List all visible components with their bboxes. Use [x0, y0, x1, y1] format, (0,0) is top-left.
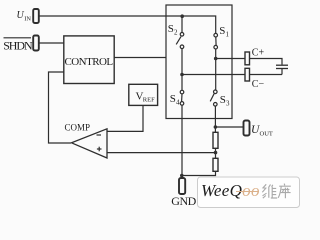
- wire to VOUT terminal: [215, 126, 243, 128]
- svg-text:COMP: COMP: [65, 123, 91, 133]
- svg-text:3: 3: [226, 100, 230, 108]
- node UIN/left-chain junction: [180, 14, 184, 18]
- capacitor C+: [245, 52, 250, 65]
- svg-text:C+: C+: [252, 47, 265, 58]
- terminal UIN: [33, 9, 39, 23]
- label UOUT: [251, 124, 273, 138]
- svg-text:CONTROL: CONTROL: [65, 56, 114, 68]
- wire C- node to capacitor C-: [182, 74, 245, 76]
- label C-: [252, 79, 265, 90]
- svg-text:S: S: [220, 94, 226, 106]
- label SHDN (with overline): [3, 38, 33, 52]
- svg-text:U: U: [17, 10, 25, 21]
- switch S3: [214, 90, 218, 94]
- wire UIN to S1 top: [39, 16, 216, 33]
- op-amp COMP triangle: [72, 129, 108, 158]
- svg-text:WeeQoo: WeeQoo: [201, 181, 260, 200]
- wire CONTROL to switch box: [114, 57, 166, 59]
- wire right chain middle segment: [215, 49, 217, 90]
- wire R2 bottom to GND node: [182, 171, 216, 175]
- terminal VOUT: [244, 121, 250, 136]
- svg-text:SHDN: SHDN: [3, 38, 33, 52]
- resistor R1: [213, 132, 218, 148]
- wire C+ node to capacitor C+: [216, 58, 245, 60]
- svg-text:IN: IN: [24, 15, 31, 22]
- wire between R1 and R2: [215, 148, 217, 158]
- svg-text:GND: GND: [171, 194, 196, 208]
- wire left chain upper segment: [181, 16, 183, 32]
- wire COMP output to CONTROL: [49, 72, 72, 143]
- watermark strike line: [236, 191, 259, 193]
- label C+: [252, 47, 265, 58]
- svg-text:1: 1: [226, 30, 230, 38]
- label S2: [168, 23, 178, 37]
- node left chain to C- wire: [180, 73, 184, 77]
- minus symbol inverting input: [97, 134, 102, 136]
- svg-text:S: S: [170, 93, 176, 105]
- wire left chain middle segment: [181, 49, 183, 91]
- label S1: [219, 25, 229, 39]
- wire C- to reservoir capacitor: [250, 74, 283, 76]
- wire left chain lower segment to GND: [181, 105, 183, 178]
- label VREF: [136, 91, 156, 104]
- wire right chain lower segment to R1: [214, 106, 216, 132]
- label GND: [171, 194, 196, 208]
- switch S2: [180, 33, 184, 37]
- reservoir capacitor plates: [276, 64, 288, 66]
- watermark CJK characters: [262, 184, 291, 199]
- label CONTROL: [65, 56, 114, 68]
- svg-text:S: S: [219, 25, 225, 37]
- block CONTROL: [64, 36, 114, 84]
- svg-text:OUT: OUT: [260, 131, 273, 138]
- node VOUT junction: [214, 125, 218, 129]
- switch S4: [180, 90, 184, 94]
- svg-text:4: 4: [176, 98, 180, 106]
- switch S1: [214, 33, 218, 37]
- terminal SHDN: [33, 36, 39, 51]
- label S4: [170, 93, 180, 107]
- node right chain to C+ wire: [214, 57, 218, 61]
- capacitor C-: [245, 68, 250, 81]
- wire feedback tap to COMP non-inverting input: [107, 152, 216, 154]
- svg-text:C−: C−: [252, 79, 265, 90]
- wire VREF to COMP inverting input: [107, 105, 143, 131]
- label S3: [220, 94, 230, 108]
- node feedback tap: [214, 151, 218, 155]
- svg-text:2: 2: [174, 28, 178, 36]
- label COMP: [65, 123, 91, 133]
- wire C+ to reservoir capacitor: [250, 59, 283, 65]
- watermark box: [198, 177, 300, 208]
- plus symbol non-inverting input: [97, 148, 102, 150]
- svg-text:S: S: [168, 23, 174, 35]
- switch box outline: [166, 5, 232, 119]
- terminal GND: [179, 178, 185, 194]
- label UIN: [17, 10, 32, 22]
- node GND junction: [180, 174, 184, 178]
- resistor R2: [213, 158, 218, 171]
- svg-text:REF: REF: [143, 97, 155, 104]
- wire reservoir capacitor to C- wire: [281, 69, 283, 75]
- block VREF: [129, 84, 158, 105]
- wire SHDN to CONTROL: [39, 42, 64, 44]
